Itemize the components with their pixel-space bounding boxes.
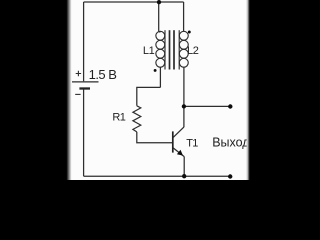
white schematic canvas <box>71 0 248 180</box>
svg-text:L2: L2 <box>187 45 199 57</box>
transistor T1 collector diagonal <box>173 127 184 137</box>
resistor R1 zigzag <box>133 106 141 132</box>
transformer core line 2 <box>173 30 175 69</box>
wire L2 bottom / collector lead <box>183 67 185 127</box>
terminal dot output upper <box>228 104 232 108</box>
wire L1 bottom lead <box>159 67 161 87</box>
transistor T1 emitter diagonal <box>173 148 184 157</box>
wire left rail upper (to battery) <box>83 2 85 81</box>
battery B1 1.5V : long (+) plate <box>72 81 99 83</box>
inductor L2 chord line <box>178 30 180 69</box>
svg-text:T1: T1 <box>186 137 198 149</box>
battery minus sign <box>75 93 80 95</box>
transistor T1 emitter arrowhead <box>177 150 183 156</box>
inductor L1 chord line <box>164 30 166 69</box>
terminal dot output lower <box>228 174 232 178</box>
transformer core line 1 <box>169 30 171 69</box>
inductor L1 winding (4 loops) <box>156 30 165 69</box>
inductor L2 winding (4 loops) <box>179 30 188 69</box>
transistor T1 base bar <box>172 131 174 152</box>
wire L1 top lead <box>159 2 161 32</box>
svg-text:R1: R1 <box>112 111 125 123</box>
black pillarbox background <box>0 0 320 180</box>
junction dot emitter / bottom rail <box>182 174 186 178</box>
wire emitter lead <box>183 157 185 177</box>
wire output upper <box>184 105 230 107</box>
wire L2 top lead <box>183 2 185 31</box>
junction dot collector / output <box>182 104 186 108</box>
phasing dot L2 <box>188 31 191 34</box>
svg-text:L1: L1 <box>143 45 155 57</box>
battery B1 short (-) plate <box>79 87 90 89</box>
wire left rail lower (battery to bottom) <box>83 88 85 176</box>
wire L1 to R1 <box>137 87 161 105</box>
svg-text:Выход: Выход <box>212 135 250 149</box>
battery plus sign <box>76 71 81 76</box>
phasing dot L1 <box>154 69 157 72</box>
wire top rail <box>84 1 184 3</box>
wire bottom rail <box>84 175 231 177</box>
right pillar overlay to clip Выход <box>249 0 320 180</box>
svg-text:1.5 В: 1.5 В <box>89 67 117 82</box>
wire R1 to base <box>137 132 173 143</box>
junction dot top rail / L1 <box>157 0 161 4</box>
